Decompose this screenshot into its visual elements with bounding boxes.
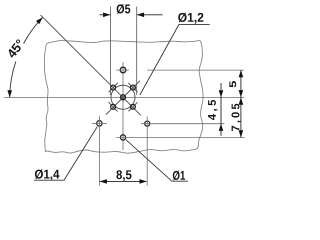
O5 dimension line + arrows — [100, 14, 111, 16]
O5 extension lines — [109, 7, 111, 96]
4,5 dimension line (outside arrows) — [220, 83, 222, 136]
O1 label + leader — [173, 171, 185, 181]
O1,4 label + leader — [35, 169, 60, 180]
hole ring BR — [130, 104, 135, 109]
O1,2 label + leader — [178, 13, 203, 24]
plate outline (broken-out panel section) — [44, 40, 203, 153]
vertical centerline — [122, 62, 124, 150]
8,5 dimension — [100, 180, 147, 182]
top hole — [120, 67, 126, 73]
45 deg arc dimension — [24, 17, 43, 43]
perpendicular tick TR hole — [128, 83, 137, 92]
extension line for 5 dim (right of top hole) — [147, 69, 244, 71]
45deg long diagonal line — [41, 15, 141, 115]
perpendicular tick BR hole — [128, 102, 137, 111]
right hole — [145, 121, 150, 126]
left O1,4 hole — [97, 121, 102, 126]
big circle O5 — [111, 85, 135, 109]
horizontal centerline — [4, 96, 244, 98]
perpendicular tick BL hole — [109, 102, 118, 111]
hole ring TR — [130, 85, 135, 90]
hole ring BL — [111, 104, 116, 109]
O5 label — [117, 4, 131, 14]
hole ring center — [121, 95, 126, 100]
bottom hole — [120, 135, 125, 140]
second long diagonal (TR to BL) — [106, 81, 140, 115]
5 / 7,05 dimension line — [240, 70, 242, 137]
hole ring TL — [111, 85, 116, 90]
perpendicular tick TL hole — [109, 83, 118, 92]
